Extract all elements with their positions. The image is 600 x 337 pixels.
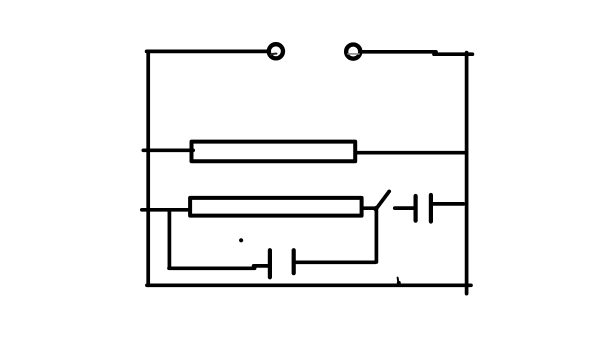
wire inner loop bottom-right [295,260,375,264]
wire left vertical (outer loop) [146,51,150,285]
wire row1 right lead [357,151,466,155]
capacitor C2 left plate [268,250,272,277]
wire branch vertical (switch pole down) [375,208,379,262]
wire stub inside T1 [271,54,277,55]
wire row2 right stub [364,206,375,210]
wire top-right step segment [434,52,472,56]
wire inner loop left vertical [168,212,172,268]
resistor R2 [190,198,362,216]
capacitor C1 right plate [429,195,433,222]
wire row1 left lead [143,148,193,152]
junction blob [397,281,401,285]
wire step to C2 plate [254,264,268,268]
wire bottom (outer loop) [147,283,471,287]
capacitor C2 right plate [292,250,296,273]
wire right vertical (outer loop) [465,53,469,294]
switch S1 blade [376,191,390,209]
wire trace inside T2 [348,53,359,55]
resistor R1 [192,142,356,162]
capacitor C1 left plate [414,196,418,221]
junction tick on bottom wire [397,278,400,283]
wire inner loop bottom-left [169,266,255,270]
wire top-left horizontal [147,50,268,54]
terminal T2 [346,45,360,59]
wire row2 left lead [142,208,190,212]
wire C1 right lead [431,202,464,206]
wire T2 to right [362,50,436,54]
terminal T1 [269,44,283,58]
wire C1 left lead [395,206,416,210]
stray dot [239,238,243,242]
